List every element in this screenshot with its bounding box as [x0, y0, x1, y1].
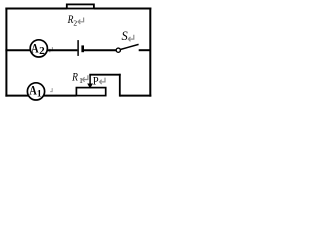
switch S pivot contact — [116, 48, 120, 52]
rheostat R1 (box on bottom border) — [76, 88, 105, 96]
svg-text:2: 2 — [73, 18, 77, 27]
return mark after R1 — [82, 75, 88, 82]
wire: switch stub to right border — [139, 49, 151, 51]
return mark after S — [128, 35, 134, 42]
return mark after A2 — [49, 47, 53, 52]
wire: middle branch, battery to switch — [84, 49, 116, 51]
return mark after A1 — [50, 88, 52, 92]
return mark after R2 — [78, 18, 84, 25]
wire: outer loop right border — [149, 8, 151, 97]
wire: bottom border left segment (to ammeter A1) — [5, 95, 28, 97]
rheostat wiper arrowhead — [87, 84, 93, 89]
ammeter A1 — [27, 83, 44, 100]
resistor R2 (box on top border) — [67, 4, 94, 8]
wire: middle branch left segment — [5, 49, 31, 51]
svg-text:R: R — [71, 72, 78, 84]
battery cell: short negative plate — [81, 45, 84, 52]
wire: top border left segment — [5, 8, 66, 10]
rheostat wiper stem — [89, 75, 91, 85]
svg-text:2: 2 — [39, 46, 45, 57]
svg-text:1: 1 — [37, 89, 42, 99]
wire: bottom border right segment — [120, 95, 152, 97]
wire: wiper jog horizontal — [89, 74, 120, 76]
battery cell: long positive plate — [77, 40, 79, 56]
wire: middle branch, A2 to battery — [47, 49, 77, 51]
ammeter A2 — [30, 40, 47, 57]
svg-text:A: A — [31, 40, 39, 55]
wire: top border right segment — [94, 8, 151, 10]
wire: bottom segment ammeter A1 to rheostat R1 — [44, 95, 77, 97]
switch S lever (open) — [120, 44, 138, 49]
svg-text:P: P — [93, 73, 99, 87]
wire: wiper jog vertical down to bottom border — [119, 74, 121, 97]
return mark after P — [100, 78, 106, 85]
svg-text:S: S — [122, 29, 128, 43]
wire: outer loop left border — [5, 8, 7, 97]
